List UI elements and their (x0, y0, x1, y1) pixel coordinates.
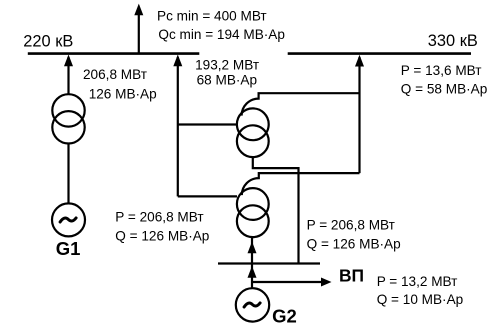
arrowhead load at 220 bus top (134, 4, 143, 16)
wire T2 left lead (178, 123, 237, 125)
transformer T2 circle upper (237, 108, 269, 140)
svg-text:P = 206,8 МВт: P = 206,8 МВт (307, 217, 395, 232)
arrowhead into T3 bottom (248, 242, 257, 254)
generator G1 circle (52, 203, 85, 236)
bus 330 kV (288, 52, 471, 55)
wire VP arrow shaft (252, 281, 322, 283)
svg-text:P = 13,6 МВт: P = 13,6 МВт (401, 63, 482, 78)
wire T3 bottom lead (251, 238, 253, 264)
svg-text:G2: G2 (272, 305, 297, 326)
arrowhead middle branch into 220 bus (173, 55, 182, 67)
transformer T1 circle lower (52, 111, 84, 143)
svg-text:126 МВ·Ар: 126 МВ·Ар (89, 86, 157, 101)
transformer T3 circle upper (237, 188, 269, 220)
svg-text:Q = 58 МВ·Ар: Q = 58 МВ·Ар (401, 81, 488, 96)
wire 330 riser (358, 57, 360, 173)
node G2 busbar line (218, 262, 320, 264)
arrowhead VP right (321, 278, 332, 287)
svg-text:220 кВ: 220 кВ (23, 33, 73, 51)
svg-text:Q = 126 МВ·Ар: Q = 126 МВ·Ар (115, 229, 209, 244)
svg-text:P = 13,2 МВт: P = 13,2 МВт (377, 274, 458, 289)
transformer T1 circle upper (52, 94, 84, 126)
generator G2 circle (236, 288, 269, 321)
svg-text:Qc min = 194 МВ·Ар: Qc min = 194 МВ·Ар (158, 27, 285, 42)
wire node to G2 (251, 264, 253, 289)
arrowhead into 330 bus (355, 55, 364, 67)
svg-text:193,2 МВт: 193,2 МВт (195, 57, 259, 72)
arrowhead node to G2 upward (248, 266, 257, 278)
transformer T2 circle lower (237, 125, 269, 157)
svg-text:68 МВ·Ар: 68 МВ·Ар (197, 73, 257, 88)
svg-text:ВП: ВП (339, 266, 364, 286)
wire T2 top lead to 330 riser (242, 93, 360, 115)
svg-text:Q = 126 МВ·Ар: Q = 126 МВ·Ар (307, 237, 401, 252)
svg-text:330 кВ: 330 кВ (428, 32, 478, 50)
arrowhead G1 into 220 bus (64, 55, 73, 67)
svg-text:206,8 МВт: 206,8 МВт (83, 67, 147, 82)
wire G1 riser (67, 57, 69, 94)
wire load arrow shaft (138, 14, 140, 53)
svg-text:Q = 10 МВ·Ар: Q = 10 МВ·Ар (377, 292, 464, 307)
wire T2 bottom lead to G2 node (253, 157, 299, 263)
wire T1 to G1 (67, 144, 69, 204)
wire 220 side riser of middle branch (177, 57, 179, 196)
generator G1 tilde symbol (60, 218, 76, 222)
generator G2 tilde symbol (244, 303, 260, 307)
transformer T3 circle lower (237, 205, 269, 237)
svg-text:P = 206,8 МВт: P = 206,8 МВт (115, 210, 203, 225)
svg-text:Pc min = 400 МВт: Pc min = 400 МВт (157, 8, 267, 23)
svg-text:G1: G1 (56, 238, 81, 259)
wire T3 top lead to 330 riser (242, 173, 360, 195)
bus 220 kV (28, 52, 200, 55)
wire T3 left lead (178, 195, 237, 197)
